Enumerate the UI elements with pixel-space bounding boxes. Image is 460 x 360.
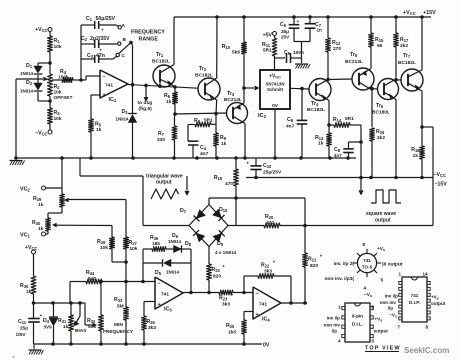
svg-text:470: 470 [225, 181, 233, 187]
svg-text:3k3: 3k3 [264, 269, 272, 275]
svg-text:IC3: IC3 [164, 307, 172, 313]
svg-text:VC1: VC1 [20, 233, 31, 239]
svg-text:R27: R27 [129, 240, 138, 246]
svg-text:820: 820 [310, 263, 318, 269]
svg-text:5: 5 [372, 339, 375, 344]
svg-text:+Vs: +Vs [375, 317, 383, 323]
svg-text:56: 56 [377, 43, 383, 49]
svg-text:3k3: 3k3 [222, 302, 230, 308]
svg-text:−: − [256, 291, 259, 297]
svg-text:4n7: 4n7 [200, 151, 209, 157]
svg-text:+5V: +5V [263, 33, 273, 39]
svg-text:*: * [273, 261, 276, 267]
svg-text:741: 741 [105, 83, 113, 89]
svg-text:*: * [320, 255, 323, 261]
svg-text:R24: R24 [212, 267, 221, 273]
svg-text:0V: 0V [263, 343, 270, 349]
svg-text:1N914: 1N914 [20, 89, 33, 94]
svg-text:C5: C5 [284, 50, 291, 56]
svg-text:to d1g: to d1g [138, 100, 153, 106]
svg-text:D7: D7 [180, 208, 187, 214]
svg-text:Tr2: Tr2 [199, 66, 207, 72]
svg-text:IC1: IC1 [109, 97, 117, 103]
svg-text:BC182L: BC182L [398, 60, 416, 66]
svg-text:R36: R36 [150, 235, 159, 241]
svg-text:820: 820 [213, 274, 221, 280]
svg-text:1k: 1k [413, 153, 419, 159]
svg-text:D2: D2 [26, 80, 33, 86]
svg-text:5R1: 5R1 [345, 116, 354, 122]
svg-text:1k5: 1k5 [228, 330, 236, 336]
svg-text:+: + [99, 48, 102, 53]
svg-text:R12: R12 [332, 40, 341, 46]
svg-text:4n7: 4n7 [286, 124, 295, 130]
svg-text:non inv: non inv [380, 300, 397, 305]
svg-text:5: 5 [381, 278, 384, 284]
svg-text:1k: 1k [38, 202, 44, 208]
svg-text:470: 470 [266, 220, 274, 226]
svg-text:R7: R7 [158, 131, 165, 137]
svg-text:RANGE: RANGE [139, 37, 159, 43]
svg-text:−Vs: −Vs [364, 292, 372, 298]
svg-text:Tr4: Tr4 [311, 101, 319, 107]
svg-text:+VCC: +VCC [403, 10, 416, 16]
svg-text:R34: R34 [86, 270, 95, 276]
svg-text:R10: R10 [222, 44, 231, 50]
svg-text:Tr1: Tr1 [156, 52, 164, 58]
svg-text:R20: R20 [265, 214, 274, 220]
svg-text:+Vs: +Vs [431, 295, 439, 301]
svg-text:4n7: 4n7 [334, 153, 342, 158]
svg-text:R29: R29 [33, 196, 42, 202]
svg-text:R23: R23 [219, 296, 228, 302]
svg-text:741: 741 [161, 292, 169, 298]
svg-text:4 x 1N914: 4 x 1N914 [215, 250, 237, 255]
svg-text:R17: R17 [400, 37, 409, 43]
svg-text:/25V: /25V [16, 332, 26, 337]
svg-text:25μ/25V: 25μ/25V [263, 170, 282, 176]
svg-text:150k: 150k [58, 75, 69, 81]
svg-text:1k: 1k [26, 289, 32, 295]
svg-text:10k: 10k [54, 44, 62, 50]
svg-text:+: + [256, 312, 259, 318]
svg-text:R8: R8 [194, 118, 201, 124]
svg-text:2μ2/35V: 2μ2/35V [90, 36, 110, 42]
svg-text:5R1: 5R1 [263, 48, 272, 54]
svg-text:8: 8 [362, 242, 365, 248]
svg-text:SeekIC.com: SeekIC.com [404, 346, 449, 355]
svg-text:R5: R5 [95, 122, 102, 128]
svg-text:1k: 1k [63, 324, 69, 330]
svg-text:R2: R2 [54, 84, 61, 90]
svg-text:IC2: IC2 [258, 113, 267, 119]
svg-text:IC4: IC4 [262, 317, 270, 323]
svg-text:R11: R11 [262, 42, 271, 48]
svg-text:R14: R14 [333, 117, 342, 123]
svg-text:output: output [431, 301, 446, 306]
svg-text:MIN: MIN [114, 322, 123, 328]
svg-text:8: 8 [372, 305, 375, 310]
svg-text:BC182L: BC182L [307, 107, 325, 113]
svg-text:D.I.P.: D.I.P. [409, 300, 420, 305]
svg-text:Tr7: Tr7 [403, 53, 411, 59]
svg-text:+: + [103, 93, 106, 99]
svg-text:+: + [297, 19, 300, 24]
svg-text:TOP VIEW: TOP VIEW [365, 346, 401, 352]
svg-text:3k3: 3k3 [148, 325, 156, 331]
svg-text:741: 741 [363, 258, 371, 263]
svg-text:8: 8 [426, 325, 429, 330]
svg-text:Tr3: Tr3 [227, 91, 235, 97]
svg-text:output: output [156, 180, 172, 186]
svg-text:2k2: 2k2 [377, 135, 385, 141]
svg-text:D4: D4 [43, 318, 50, 324]
svg-text:50μ/25V: 50μ/25V [96, 16, 116, 22]
svg-text:(fig.5): (fig.5) [139, 106, 153, 112]
svg-text:C2: C2 [81, 36, 88, 42]
svg-text:FREQUENCY: FREQUENCY [103, 329, 134, 335]
svg-text:Schmitt: Schmitt [267, 87, 284, 92]
svg-text:D3: D3 [121, 109, 128, 115]
svg-text:inv i/p: inv i/p [327, 316, 340, 321]
svg-text:5R1: 5R1 [204, 118, 213, 124]
svg-text:10k: 10k [100, 245, 108, 251]
svg-text:840: 840 [88, 276, 96, 282]
svg-text:R21: R21 [308, 257, 317, 263]
svg-text:output: output [375, 218, 391, 224]
svg-text:18k: 18k [152, 241, 160, 247]
svg-text:10k: 10k [54, 90, 62, 96]
svg-text:R9: R9 [220, 135, 227, 141]
svg-text:i/p: i/p [332, 329, 338, 334]
svg-text:2k2: 2k2 [400, 43, 408, 49]
svg-text:741: 741 [259, 302, 267, 308]
svg-text:1N914: 1N914 [20, 71, 33, 76]
svg-text:inv i/p: inv i/p [385, 294, 398, 299]
svg-text:R6: R6 [164, 93, 171, 99]
svg-text:1: 1 [338, 305, 341, 310]
svg-text:1: 1 [398, 272, 401, 277]
svg-text:+VCC: +VCC [269, 74, 281, 80]
svg-text:+Vs: +Vs [377, 246, 385, 252]
svg-text:R13: R13 [315, 135, 324, 141]
svg-text:1k: 1k [38, 226, 44, 232]
svg-text:square wave: square wave [366, 211, 396, 217]
svg-text:0V: 0V [272, 103, 279, 109]
svg-text:C1: C1 [86, 16, 93, 22]
svg-text:C11: C11 [18, 319, 27, 325]
svg-text:R16: R16 [376, 129, 385, 135]
svg-text:1k: 1k [166, 99, 172, 105]
svg-text:−Vs: −Vs [389, 313, 397, 319]
svg-text:3V9: 3V9 [44, 325, 53, 330]
svg-text:D8: D8 [185, 241, 192, 247]
svg-text:BC180L: BC180L [372, 110, 390, 116]
svg-text:+: + [246, 161, 249, 166]
svg-text:R25: R25 [226, 323, 235, 329]
svg-text:R30: R30 [32, 220, 41, 226]
svg-text:SN7413N: SN7413N [265, 82, 284, 87]
svg-text:C10: C10 [263, 163, 272, 169]
svg-text:5M: 5M [117, 304, 124, 310]
svg-text:i/p: i/p [388, 306, 394, 311]
svg-text:+: + [101, 27, 104, 32]
svg-text:non-inv. i/p3(: non-inv. i/p3( [325, 276, 355, 282]
svg-text:8-pin: 8-pin [352, 314, 363, 319]
svg-text:+VCC: +VCC [35, 27, 47, 33]
svg-text:25V: 25V [281, 35, 290, 40]
svg-text:A: A [122, 23, 126, 29]
svg-text:inv. i/p 2(: inv. i/p 2( [334, 261, 355, 267]
svg-text:1k: 1k [96, 127, 102, 133]
svg-text:741: 741 [411, 293, 419, 298]
svg-text:1N914: 1N914 [166, 270, 179, 275]
svg-text:25μ: 25μ [20, 326, 28, 331]
svg-text:25μ: 25μ [281, 29, 289, 34]
svg-text:C3: C3 [87, 53, 94, 59]
svg-text:D5: D5 [155, 270, 162, 276]
svg-text:*: * [231, 294, 234, 300]
svg-text:C9: C9 [287, 117, 294, 123]
svg-text:−15V: −15V [435, 182, 448, 188]
svg-text:BIAS: BIAS [75, 328, 87, 334]
svg-text:BC213L: BC213L [345, 59, 363, 65]
svg-text:100n: 100n [293, 50, 304, 56]
svg-text:+: + [158, 302, 161, 308]
svg-text:VC2: VC2 [20, 187, 31, 193]
svg-text:R1: R1 [54, 38, 61, 44]
svg-text:5k6: 5k6 [232, 50, 240, 56]
svg-text:10k: 10k [130, 246, 138, 252]
svg-text:−: − [158, 281, 161, 287]
svg-text:−VCC: −VCC [434, 172, 446, 178]
svg-text:1N914: 1N914 [116, 117, 129, 122]
svg-text:D9: D9 [217, 241, 224, 247]
svg-text:R19: R19 [214, 175, 223, 181]
svg-text:7: 7 [397, 325, 400, 330]
svg-text:D1: D1 [26, 63, 33, 69]
svg-text:+15V: +15V [423, 10, 436, 16]
svg-text:R3: R3 [54, 110, 61, 116]
svg-text:1N914: 1N914 [168, 239, 181, 244]
svg-text:1k: 1k [221, 141, 227, 147]
svg-text:)6 output: )6 output [382, 262, 403, 268]
svg-text:R33: R33 [114, 297, 123, 303]
svg-text:R35: R35 [20, 283, 29, 289]
svg-text:C4: C4 [200, 145, 207, 151]
svg-text:output: output [374, 329, 389, 334]
svg-text:4: 4 [338, 339, 341, 344]
svg-text:10k: 10k [54, 116, 62, 122]
svg-text:R22: R22 [261, 263, 270, 269]
svg-text:R26: R26 [147, 319, 156, 325]
svg-text:B: B [123, 37, 127, 43]
svg-text:−: − [103, 74, 106, 80]
svg-text:TO-5: TO-5 [362, 265, 373, 270]
svg-text:−VCC: −VCC [35, 131, 47, 137]
svg-text:Tr5: Tr5 [350, 52, 358, 58]
svg-text:47n: 47n [96, 53, 105, 59]
svg-text:OFFSET: OFFSET [54, 95, 73, 101]
svg-text:BC182L: BC182L [152, 59, 170, 65]
svg-text:C6: C6 [280, 22, 287, 28]
svg-text:4: 4 [363, 286, 366, 292]
svg-text:R18: R18 [411, 147, 420, 153]
svg-text:R28: R28 [97, 239, 106, 245]
svg-text:Tr6: Tr6 [376, 103, 384, 109]
svg-text:270: 270 [333, 46, 341, 52]
svg-text:C: C [122, 53, 126, 59]
svg-text:+VCC: +VCC [25, 245, 37, 251]
svg-text:14: 14 [423, 272, 429, 277]
svg-text:FREQUENCY: FREQUENCY [131, 30, 165, 36]
svg-text:R4: R4 [60, 69, 67, 75]
svg-text:R31: R31 [58, 318, 67, 324]
svg-text:non inv: non inv [324, 323, 341, 328]
svg-text:1k: 1k [318, 141, 324, 147]
svg-text:330: 330 [157, 137, 165, 143]
svg-text:R32: R32 [87, 318, 96, 324]
svg-text:R15: R15 [375, 37, 384, 43]
svg-text:1n: 1n [317, 28, 323, 33]
svg-text:D10: D10 [219, 207, 228, 213]
svg-text:D.I.L.: D.I.L. [352, 322, 363, 327]
svg-text:*: * [223, 265, 226, 271]
